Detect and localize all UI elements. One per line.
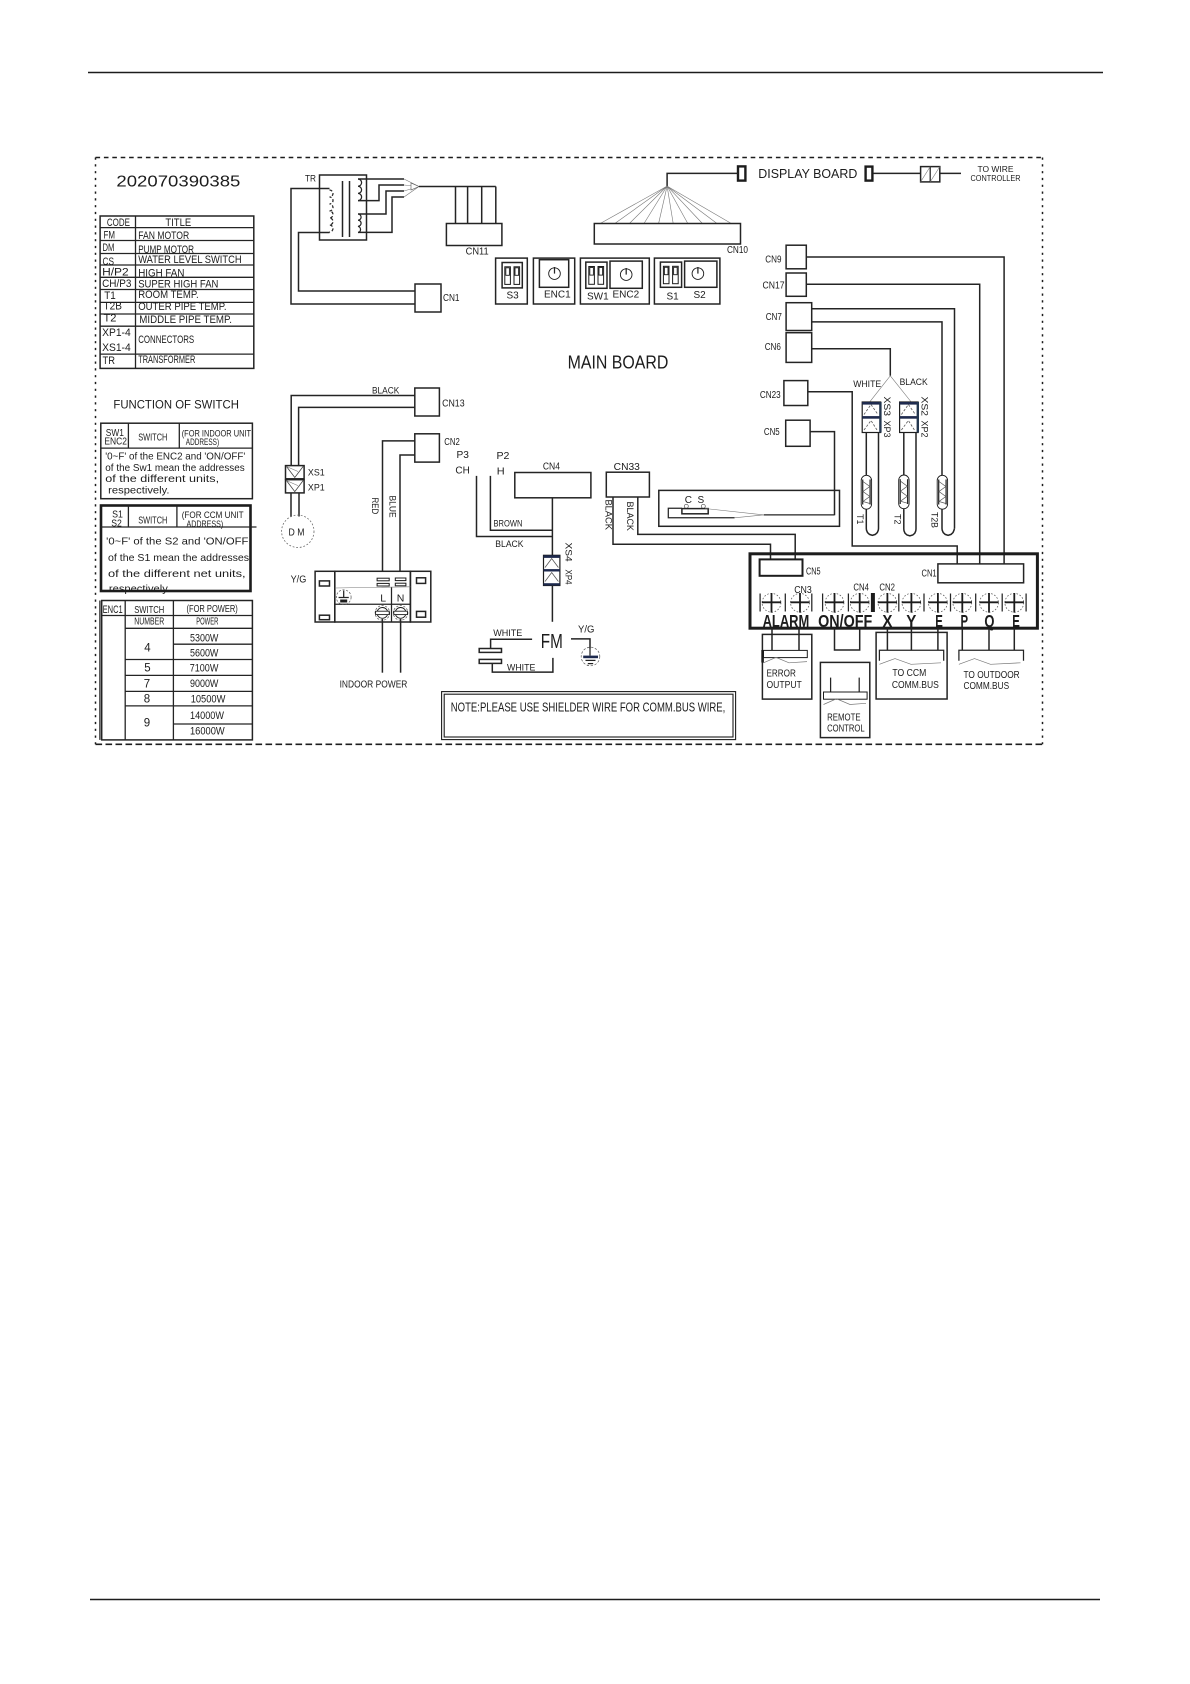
svg-text:XP3: XP3 — [881, 421, 892, 438]
label C S — [685, 495, 705, 506]
svg-text:REMOTE: REMOTE — [827, 711, 861, 723]
label XS3 — [881, 397, 892, 417]
svg-text:WHITE: WHITE — [853, 379, 881, 390]
jumper ON/OFF — [835, 628, 860, 650]
svg-text:S2: S2 — [694, 290, 707, 301]
ground symbol in power strip — [336, 590, 351, 605]
svg-text:CN1: CN1 — [922, 568, 937, 579]
wire TR secondary 3 — [358, 191, 404, 214]
label XP1 — [308, 483, 325, 494]
svg-text:SWITCH: SWITCH — [138, 516, 167, 527]
svg-text:MAIN BOARD: MAIN BOARD — [568, 351, 669, 372]
label XS2 — [919, 397, 930, 417]
label XP4 — [563, 570, 574, 585]
svg-text:ON/OFF: ON/OFF — [818, 611, 872, 631]
svg-text:DM: DM — [103, 242, 115, 254]
svg-text:XS3: XS3 — [881, 397, 892, 417]
svg-text:CN9: CN9 — [765, 254, 782, 265]
svg-text:COMM.BUS: COMM.BUS — [964, 680, 1010, 692]
svg-text:S2: S2 — [111, 519, 122, 530]
svg-text:NOTE:PLEASE USE SHIELDER WIRE: NOTE:PLEASE USE SHIELDER WIRE FOR COMM.B… — [451, 700, 726, 714]
svg-text:ENC1: ENC1 — [544, 290, 571, 301]
svg-text:TO CCM: TO CCM — [892, 667, 926, 679]
svg-text:CH: CH — [455, 466, 469, 477]
connector to wire controller — [921, 167, 940, 182]
svg-text:RED: RED — [369, 498, 380, 515]
note box — [442, 692, 736, 740]
svg-text:T1: T1 — [854, 514, 865, 525]
error output box — [762, 634, 811, 699]
label BLUE — [387, 496, 398, 518]
svg-text:T2: T2 — [104, 312, 117, 324]
water level switch CS enclosure — [659, 490, 840, 526]
svg-text:SWITCH: SWITCH — [134, 605, 164, 616]
wire connector to label — [940, 172, 961, 174]
terminal board outline — [750, 554, 1037, 628]
wire CN2 blue to power N — [400, 455, 415, 571]
svg-text:S1: S1 — [667, 292, 680, 303]
label Y/G (FM ground) — [578, 624, 595, 635]
wire XP4 to FM — [551, 586, 553, 622]
connector CN5 (terminal board) — [760, 559, 821, 577]
svg-text:COMM.BUS: COMM.BUS — [892, 679, 939, 691]
svg-text:P: P — [961, 611, 969, 631]
connector CN1 (main board) — [415, 284, 460, 312]
label WHITE — [853, 379, 881, 390]
svg-text:10500W: 10500W — [191, 693, 226, 705]
svg-text:TR: TR — [103, 355, 116, 367]
thermistor T2B body — [937, 475, 947, 509]
wires to indoor power — [382, 619, 400, 673]
wire display board to connector — [873, 172, 921, 174]
wire TR primary left top — [291, 189, 415, 305]
svg-text:5600W: 5600W — [190, 648, 219, 660]
svg-text:202070390385: 202070390385 — [116, 174, 240, 191]
svg-text:OUTER PIPE TEMP.: OUTER PIPE TEMP. — [138, 301, 226, 313]
svg-text:CN11: CN11 — [466, 247, 490, 258]
screw terminal L — [375, 606, 390, 621]
label T1 — [854, 514, 865, 525]
svg-text:CN5: CN5 — [764, 427, 780, 438]
svg-text:5: 5 — [144, 663, 150, 675]
label BLACK (CN13 wire) — [372, 385, 400, 396]
svg-text:Y: Y — [906, 611, 916, 631]
svg-text:CONTROLLER: CONTROLLER — [971, 173, 1021, 183]
svg-text:H/P2: H/P2 — [102, 267, 129, 279]
label XP2 — [919, 421, 930, 438]
connector CN13 — [415, 388, 465, 416]
label CN4 (terminal) — [853, 583, 869, 594]
svg-text:'0~F' of the S2 and 'ON/OFF: '0~F' of the S2 and 'ON/OFF — [106, 536, 248, 548]
wire CH black to FM — [477, 476, 553, 537]
svg-text:CN6: CN6 — [765, 342, 782, 353]
transformer TR — [305, 173, 367, 240]
svg-text:TRANSFORMER: TRANSFORMER — [138, 354, 195, 366]
connector CN5 (main board) — [764, 420, 810, 446]
label WHITE (bottom) — [507, 663, 535, 674]
svg-text:CODE: CODE — [107, 217, 130, 229]
svg-text:9000W: 9000W — [190, 678, 219, 690]
MAIN BOARD title — [568, 351, 669, 372]
connector pair XS1/XP1 — [286, 466, 305, 493]
dip switch SW1 + rotary ENC2 — [580, 258, 649, 304]
svg-text:ROOM TEMP.: ROOM TEMP. — [138, 289, 199, 301]
svg-text:Y/G: Y/G — [578, 624, 595, 635]
svg-text:XP4: XP4 — [563, 570, 574, 585]
part number 202070390385 — [116, 174, 240, 191]
wire CN23 to CN1 — [808, 392, 957, 564]
wire CN13 to XS1 right — [299, 407, 415, 465]
svg-text:XS4: XS4 — [563, 543, 574, 562]
svg-text:SWITCH: SWITCH — [138, 432, 167, 443]
svg-text:FM: FM — [541, 630, 563, 653]
label XS4 — [563, 543, 574, 562]
label RED — [369, 498, 380, 515]
svg-text:CONTROL: CONTROL — [827, 723, 865, 735]
svg-text:CN7: CN7 — [766, 312, 783, 323]
svg-text:ENC2: ENC2 — [104, 437, 127, 448]
svg-text:N: N — [397, 592, 405, 604]
connector CN11 — [446, 224, 502, 258]
connector pair XS4/XP4 — [544, 555, 560, 585]
svg-text:XS1: XS1 — [308, 468, 325, 479]
to outdoor comm.bus bracket — [959, 650, 1024, 692]
svg-text:BROWN: BROWN — [494, 519, 523, 530]
svg-text:H: H — [497, 467, 505, 478]
svg-text:ERROR: ERROR — [767, 667, 797, 679]
to ccm comm.bus box — [876, 632, 947, 699]
svg-text:WHITE: WHITE — [493, 628, 522, 639]
svg-text:HIGH FAN: HIGH FAN — [138, 267, 184, 279]
svg-text:FUNCTION OF SWITCH: FUNCTION OF SWITCH — [113, 400, 238, 412]
label Y/G (power strip) — [291, 574, 307, 585]
svg-text:P2: P2 — [497, 451, 510, 462]
svg-text:E: E — [935, 611, 943, 631]
thermistor T2 body — [899, 475, 909, 509]
svg-text:(FOR POWER): (FOR POWER) — [187, 604, 238, 615]
svg-text:ADDRESS): ADDRESS) — [187, 519, 224, 530]
svg-text:D M: D M — [289, 527, 305, 538]
svg-text:S3: S3 — [507, 291, 520, 302]
screw terminal N — [393, 606, 408, 621]
fan motor FM — [541, 630, 563, 653]
label H — [497, 467, 505, 478]
svg-text:ENC1: ENC1 — [103, 604, 123, 616]
label XS1 — [308, 468, 325, 479]
heading FUNCTION OF SWITCH — [113, 400, 238, 412]
label P2 — [497, 451, 510, 462]
svg-text:XP2: XP2 — [919, 421, 930, 438]
svg-text:L: L — [380, 593, 386, 605]
connector CN4 — [515, 462, 591, 498]
connector CN6 — [765, 333, 812, 363]
connector CN10 — [594, 224, 748, 257]
svg-text:TR: TR — [305, 173, 316, 184]
svg-text:XS2: XS2 — [919, 397, 930, 417]
label DISPLAY BOARD — [758, 167, 857, 181]
svg-text:ENC2: ENC2 — [613, 290, 640, 301]
svg-text:14000W: 14000W — [190, 710, 225, 722]
svg-text:CN2: CN2 — [444, 437, 460, 448]
svg-text:T2B: T2B — [929, 512, 940, 528]
wires P Q E to outdoor — [962, 628, 1014, 650]
svg-text:CN4: CN4 — [853, 583, 869, 594]
wire CN13 to XS1 left — [291, 396, 415, 466]
svg-text:INDOOR POWER: INDOOR POWER — [340, 679, 408, 691]
svg-text:BLACK: BLACK — [900, 377, 929, 388]
svg-text:16000W: 16000W — [190, 726, 225, 738]
connector CN33 — [606, 462, 649, 497]
svg-text:9: 9 — [144, 717, 150, 729]
svg-text:CONNECTORS: CONNECTORS — [138, 334, 194, 346]
svg-text:CH/P3: CH/P3 — [102, 278, 131, 290]
wire CN33 right to CN5 terminal — [638, 497, 795, 559]
wire TR primary left bottom — [299, 233, 416, 292]
svg-text:MIDDLE PIPE TEMP.: MIDDLE PIPE TEMP. — [139, 314, 232, 326]
svg-text:CN17: CN17 — [763, 280, 785, 291]
svg-text:TITLE: TITLE — [165, 217, 191, 229]
label BLACK (FM wire) — [495, 539, 524, 550]
svg-text:FAN MOTOR: FAN MOTOR — [138, 230, 189, 242]
svg-text:XP1: XP1 — [308, 483, 325, 494]
display board connector bracket left — [738, 166, 745, 180]
svg-text:BLUE: BLUE — [387, 496, 398, 518]
label BLACK (CN33 left) — [603, 500, 614, 531]
top rule line — [88, 72, 1103, 74]
svg-text:OUTPUT: OUTPUT — [767, 679, 803, 691]
svg-text:CN23: CN23 — [760, 390, 781, 401]
display board connector bracket right — [866, 167, 873, 181]
wire fan-in arrow to CN11 — [404, 179, 496, 224]
dip switch S1 + rotary S2 — [654, 258, 720, 304]
connector CN23 — [760, 381, 808, 406]
svg-text:X: X — [882, 611, 892, 631]
svg-text:XP1-4: XP1-4 — [102, 327, 131, 339]
svg-text:8: 8 — [144, 694, 150, 706]
bottom rule line — [90, 1599, 1100, 1601]
label T2B — [929, 512, 940, 528]
label CH — [455, 466, 469, 477]
connector CN1 (terminal board) — [922, 564, 1024, 583]
connector CN2 — [415, 434, 460, 462]
svg-text:7100W: 7100W — [190, 663, 219, 675]
wire capacitor bottom to FM — [492, 658, 553, 672]
svg-text:DISPLAY BOARD: DISPLAY BOARD — [758, 167, 857, 181]
wire FM to capacitor top — [491, 639, 532, 648]
svg-text:WATER LEVEL SWITCH: WATER LEVEL SWITCH — [138, 254, 241, 266]
switch table SW1/ENC2 — [101, 423, 253, 499]
svg-text:5300W: 5300W — [190, 632, 219, 644]
svg-text:4: 4 — [144, 642, 151, 654]
label CN3 — [794, 585, 812, 596]
wire CN33 left to CN5 terminal — [613, 497, 771, 559]
svg-text:CN4: CN4 — [543, 462, 560, 473]
legend table CODE/TITLE — [100, 216, 254, 368]
wires XP1 to pump motor — [291, 493, 299, 517]
wire FM to ground — [571, 639, 590, 649]
switch CS body — [668, 504, 834, 518]
svg-text:Y/G: Y/G — [291, 574, 307, 585]
connector CN9 — [765, 245, 806, 269]
switch table S1/S2 — [101, 506, 257, 596]
ground symbol FM — [581, 647, 600, 666]
thermistor T1 body — [861, 475, 871, 509]
label XP3 — [881, 421, 892, 438]
wire CN2 red to power L — [383, 441, 415, 571]
svg-text:SW1: SW1 — [587, 292, 609, 303]
label CN2 (terminal) — [879, 583, 895, 594]
label INDOOR POWER — [340, 679, 408, 691]
svg-text:BLACK: BLACK — [603, 500, 614, 531]
svg-text:T2: T2 — [891, 514, 902, 525]
svg-text:POWER: POWER — [196, 616, 218, 627]
thermistor T2B bottom loop — [942, 509, 955, 535]
terminal labels — [763, 611, 1020, 631]
wire CN17 to CN1 — [806, 284, 979, 564]
svg-text:of the S1 mean the addresses: of the S1 mean the addresses — [108, 552, 249, 564]
svg-text:NUMBER: NUMBER — [134, 616, 164, 627]
fan-out wires to CN10 — [600, 186, 731, 223]
dashed diagram border — [96, 158, 1044, 745]
svg-text:CN10: CN10 — [727, 245, 748, 256]
svg-text:FM: FM — [104, 229, 116, 241]
svg-text:of the different net units,: of the different net units, — [108, 568, 246, 580]
wire CN5 to CS switch — [810, 432, 834, 516]
svg-text:of the different units,: of the different units, — [105, 473, 219, 485]
thermistor T1 wires — [866, 433, 878, 536]
svg-text:BLACK: BLACK — [495, 539, 524, 550]
pump motor DM — [282, 515, 314, 547]
svg-text:of the Sw1 mean the addresses: of the Sw1 mean the addresses — [105, 462, 244, 474]
svg-text:BLACK: BLACK — [624, 502, 635, 532]
label T2 — [891, 514, 902, 525]
svg-text:CN13: CN13 — [442, 398, 465, 409]
label WHITE (top) — [493, 628, 522, 639]
label TO WIRE CONTROLLER — [971, 164, 1021, 183]
svg-text:respectively.: respectively. — [108, 485, 169, 497]
wire CN7 to T2B left — [812, 322, 942, 476]
wire display board to CN10 fan — [667, 173, 738, 186]
label P3 — [457, 450, 470, 461]
wires X Y E to CCM — [887, 628, 938, 650]
svg-text:CN2: CN2 — [879, 583, 895, 594]
wire TR secondary 2 — [358, 185, 404, 201]
svg-text:XS1-4: XS1-4 — [102, 342, 131, 354]
connector pair XS2/XP2 — [900, 402, 919, 433]
svg-text:WHITE: WHITE — [507, 663, 535, 674]
svg-text:E: E — [1012, 611, 1020, 631]
connector CN17 — [763, 273, 807, 296]
svg-text:CN5: CN5 — [806, 566, 821, 577]
svg-text:P3: P3 — [457, 450, 470, 461]
screw terminals row — [760, 593, 1026, 613]
wire CN6 to sensor plugs — [812, 349, 912, 402]
svg-text:'0~F' of the ENC2 and 'ON/OFF': '0~F' of the ENC2 and 'ON/OFF' — [105, 450, 245, 462]
wires ALARM to error output — [772, 628, 799, 650]
wire CN9 to CN1 — [806, 257, 1004, 564]
remote control box — [820, 662, 869, 737]
wire CN4 to XS4 — [551, 498, 553, 556]
switch table ENC1 power — [100, 601, 253, 740]
capacitor C — [479, 649, 501, 664]
thermistor T2 wires — [904, 433, 916, 536]
svg-text:Q: Q — [984, 611, 994, 631]
svg-text:ALARM: ALARM — [763, 611, 810, 631]
svg-text:ADDRESS): ADDRESS) — [186, 437, 219, 447]
indoor power terminal strip — [315, 571, 431, 622]
label BLACK — [900, 377, 929, 388]
svg-text:respectively.: respectively. — [109, 583, 170, 595]
wire TR secondary 1 — [358, 178, 404, 180]
connector pair XS3/XP3 — [862, 402, 881, 433]
dip switch S3 — [496, 258, 528, 304]
rotary switch ENC1 — [533, 258, 574, 304]
svg-text:CN1: CN1 — [443, 293, 460, 304]
svg-text:CN33: CN33 — [614, 462, 641, 473]
svg-text:7: 7 — [144, 678, 150, 690]
svg-text:T2B: T2B — [104, 301, 122, 313]
wire H brown to FM — [490, 476, 552, 530]
wire CN7 to T2B right — [812, 309, 955, 529]
label BLACK (CN33 right) — [624, 502, 635, 532]
connector CN7 — [766, 303, 812, 331]
label BROWN — [494, 519, 523, 530]
wire TR secondary 4 — [358, 197, 404, 232]
